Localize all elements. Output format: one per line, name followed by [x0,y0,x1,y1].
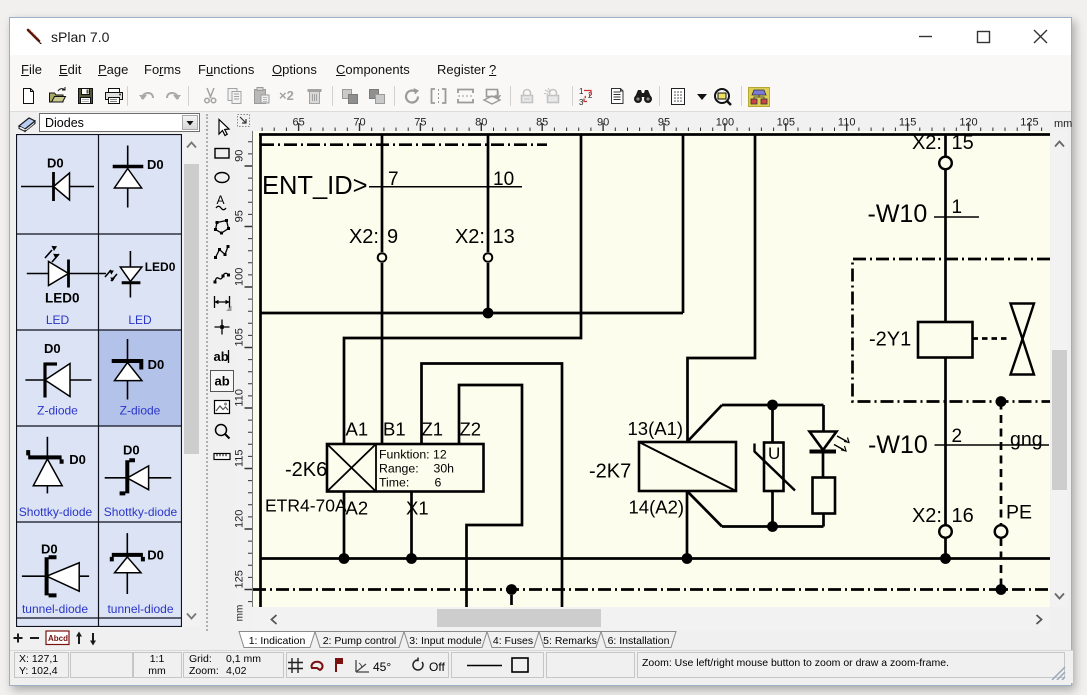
svg-text:16: 16 [952,505,974,527]
svg-text:A1: A1 [346,419,369,440]
wire: cable -W10 marker line 1 [934,216,979,218]
svg-text:X1: X1 [406,498,429,519]
wire: -2K7 pin 14 down to lower bus [686,491,689,559]
wire: varistor branch top [771,405,774,443]
book icon [19,118,35,129]
svg-text:1: 1 [952,197,963,218]
wire: varistor branch bottom [771,491,774,527]
svg-text:Z-diode: Z-diode [120,404,161,418]
wire: schematic frame left border [259,135,262,608]
svg-text:10: 10 [493,169,514,190]
svg-text:90: 90 [234,150,246,162]
svg-text:ab: ab [215,374,230,389]
svg-text:-W10: -W10 [868,200,928,228]
terminal X2:15 [939,157,952,170]
node: varistor at snubber top rail [767,400,778,411]
svg-text:65: 65 [292,117,304,129]
svg-text:13(A1): 13(A1) [628,418,684,439]
wire: horizontal bus upper [261,312,683,315]
left ruler [234,131,253,631]
svg-text:7: 7 [388,169,399,190]
top ruler [253,112,1050,131]
svg-text:105: 105 [777,117,795,129]
wire: X2:9 to -2K6 pin B1 [381,263,384,444]
terminal PE [995,525,1008,538]
wire: LED to resistor R1 [822,453,825,478]
svg-text:2: Pump control: 2: Pump control [323,635,397,647]
svg-text:2: 2 [952,426,963,447]
svg-text:D0: D0 [47,156,64,171]
wire: resistor to snubber bottom rail [822,514,825,527]
canvas area: corner [234,112,253,131]
save [77,87,94,105]
svg-text:LED: LED [46,313,70,327]
svg-text:D0: D0 [147,157,164,172]
svg-text:85: 85 [536,117,548,129]
wire: potential reference line with numbers 7 and 10 [369,186,522,188]
terminal X2:13 [484,253,493,262]
locks [518,87,536,105]
svg-text:115: 115 [899,117,917,129]
svg-text:Off: Off [429,660,445,674]
svg-text:A: A [217,193,225,207]
svg-text:Z2: Z2 [460,419,482,440]
svg-text:6: Installation: 6: Installation [608,635,670,647]
svg-text:90: 90 [597,117,609,129]
wire: dash-dot boundary top-left [261,143,547,146]
node: PE at enclosure dash-dot edge [996,396,1007,407]
svg-text:mm: mm [235,605,246,622]
wire: snubber bottom rail [722,525,824,528]
svg-text:1: 1 [579,87,584,96]
svg-text:80: 80 [475,117,487,129]
svg-text:-2Y1: -2Y1 [869,329,911,351]
svg-text:U: U [768,444,780,463]
svg-text:X2:: X2: [349,226,379,248]
undo / redo [138,87,156,105]
svg-text:120: 120 [234,510,246,528]
wire: vertical dash-dot stub below junction [510,595,513,605]
rotate, mirror, flip, send [403,87,422,106]
R2C1 LED horizontal [27,243,106,327]
node: X2:16 at lower bus [940,553,951,564]
svg-text:70: 70 [353,117,365,129]
R1C1 diode D0 horizontal [21,156,94,202]
numbering [579,87,598,106]
R3C1 Z-diode horizontal [25,341,91,418]
wire: top feed to -2K6 pin A1 (step) [344,135,581,445]
wire: snubber bottom diagonal from pin 14 [687,491,722,527]
component: relay coil -2K7 [639,442,736,491]
wire: horizontal bus lower [261,557,1050,560]
svg-text:110: 110 [838,117,856,129]
svg-text:Time:: Time: [379,476,409,490]
svg-text:3: 3 [579,98,584,106]
svg-text:Z-diode: Z-diode [37,404,78,418]
R5C1 tunnel horizontal [22,542,89,617]
open [48,87,68,105]
node: X1 at lower bus [406,553,417,564]
svg-text:gng: gng [1010,429,1043,451]
wire: -2K6 pin A2 down to lower bus [343,492,346,559]
svg-text:Range:: Range: [379,462,419,476]
wire: right end of upper bus to frame top [682,135,685,314]
svg-text:B1: B1 [383,419,406,440]
list [609,87,625,105]
label: -2K6 function rows [379,448,454,490]
component: timer relay -2K6 [327,444,484,492]
svg-text:X2:: X2: [455,226,485,248]
terminal X2:16 [939,525,952,538]
wire: dashed link -2Y1 to valve [973,337,1010,340]
wire: cable -W10 marker line 2 [935,444,1050,446]
wire: X2:15 wire from frame top [944,135,947,158]
svg-text:120: 120 [959,117,977,129]
svg-text:Funktion:: Funktion: [379,448,430,462]
wire: X2:13 vertical wire upper segment [487,135,490,253]
svg-text:Shottky-diode: Shottky-diode [19,505,93,519]
R4C1 Shottky vertical [19,437,93,519]
wire: dash-dot boundary bottom [253,588,1050,591]
wire: PE dashed conductor lower [1000,538,1003,590]
group/ungroup [341,87,360,105]
svg-text:ab: ab [214,349,229,364]
panel scrollbar [183,134,200,627]
svg-text:95: 95 [234,210,246,222]
svg-text:30h: 30h [434,462,455,476]
svg-text:12: 12 [433,448,447,462]
zoom [712,87,734,107]
svg-text:3: Input module: 3: Input module [409,635,482,647]
wire: top feed to -2K7 pin 13 (step) [688,135,756,443]
wire: snubber top rail [722,404,824,407]
svg-text:115: 115 [234,450,246,468]
binoculars [633,87,653,105]
cut copy paste x2 trash [202,87,219,105]
new [20,87,37,105]
svg-text:-W10: -W10 [868,431,928,459]
svg-text:D0: D0 [148,357,165,372]
page tabs [234,631,704,650]
svg-text:15: 15 [952,132,974,154]
svg-text:6: 6 [435,476,442,490]
svg-text:D0: D0 [41,542,58,557]
toolbar [10,82,1071,112]
svg-text:9: 9 [387,226,398,248]
svg-text:Abcd: Abcd [48,634,68,643]
wire: -2K6 pin Z2 routing [459,385,522,607]
svg-text:100: 100 [234,268,246,286]
svg-text:5: Remarks: 5: Remarks [543,635,597,647]
component: varistor U [755,443,796,492]
svg-text:110: 110 [234,389,246,407]
component: resistor in LED branch [813,478,836,514]
svg-text:PE: PE [1006,502,1032,524]
wire: -2K6 pin Z1 routing [422,364,563,608]
svg-text:Shottky-diode: Shottky-diode [104,505,178,519]
left component panel [17,114,38,134]
vertical drawing toolbar [206,114,208,631]
svg-text:ETR4-70A: ETR4-70A [265,496,347,516]
svg-text:125: 125 [234,570,246,588]
selected cell [99,331,182,426]
menu bar [10,55,1071,82]
svg-text:A2: A2 [346,498,369,519]
svg-text:125: 125 [1020,117,1038,129]
svg-text:Z1: Z1 [422,419,444,440]
thin reference lines [369,187,1049,445]
node: junction on bottom dash-dot line [506,584,517,595]
svg-text:13: 13 [493,226,515,248]
node: A2 at lower bus [339,553,350,564]
svg-text:X2:: X2: [912,505,942,527]
svg-text:45°: 45° [373,660,391,674]
print [104,87,124,105]
svg-text:D0: D0 [69,452,86,467]
component grid [16,134,182,627]
node: -2K7 pin 14 at lower bus [682,553,693,564]
svg-text:95: 95 [658,117,670,129]
component: LED indicator [810,432,850,452]
svg-text:ENT_ID>: ENT_ID> [262,172,368,200]
svg-text:tunnel-diode: tunnel-diode [22,602,88,616]
component: valve symbol [1011,304,1035,375]
wire: X2:13 to bus node [487,263,490,313]
wire: schematic frame top border [259,133,1050,136]
svg-text:105: 105 [234,328,246,346]
node: varistor at snubber bottom rail [767,521,778,532]
wire: PE dashed conductor upper [1000,402,1003,526]
svg-text:LED: LED [128,313,152,327]
wire: dash-dot enclosure box around -2Y1 [853,259,1051,402]
svg-text:-2K6: -2K6 [285,459,327,481]
wire: X2:15 terminal to -2Y1 coil [944,169,947,322]
svg-text:D0: D0 [147,548,164,563]
node: PE at bottom dash-dot line [996,584,1007,595]
canvas horizontal scrollbar [253,607,1050,631]
svg-text:75: 75 [414,117,426,129]
svg-text:4: Fuses: 4: Fuses [493,635,533,647]
svg-text:tunnel-diode: tunnel-diode [107,602,173,616]
wire: X2:9 vertical wire upper segment [381,135,384,253]
svg-text:1: Indication: 1: Indication [249,635,306,647]
R4C2 Shottky horizontal [104,443,178,520]
node: X2:13 at upper bus [483,308,494,319]
R3C2 Z-diode vertical (selected) [112,339,165,418]
wire: LED branch top [822,405,825,432]
wire: X2:16 terminal to lower bus [944,538,947,559]
svg-text:D0: D0 [44,341,61,356]
node: junction dots [339,308,1007,595]
canvas vertical scrollbar [1051,131,1068,607]
panel mini toolbar [10,628,130,654]
wire: -2Y1 coil to X2:16 terminal [944,358,947,526]
R5C2 tunnel vertical [107,533,173,616]
wire: snubber top diagonal from pin 13 [687,405,722,442]
svg-text:D0: D0 [123,443,140,458]
terminal X2:9 [378,253,387,262]
svg-text:14(A2): 14(A2) [629,497,685,518]
svg-text:LED0: LED0 [145,260,176,274]
title bar [10,18,1071,55]
component: solenoid coil -2Y1 [918,322,973,358]
components browser (colored) [748,87,770,107]
svg-text:LED0: LED0 [45,291,80,306]
R2C2 LED vertical [105,251,176,327]
svg-text:100: 100 [716,117,734,129]
grid btn + arrow [669,87,687,106]
status bar [10,650,1073,683]
svg-text:-2K7: -2K7 [589,461,631,483]
svg-text:X2:: X2: [912,132,942,154]
R1C2 diode D0 vertical [113,146,164,208]
wire: -2K6 pin X1 down to lower bus [410,492,413,559]
drawing area with circuit schematic [253,131,1050,607]
